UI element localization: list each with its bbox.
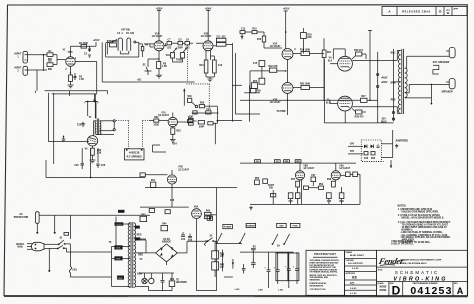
reverb recovery tube V8 bbox=[158, 111, 181, 145]
B+ test nodes bbox=[377, 49, 395, 124]
bias supply dashed box bbox=[348, 130, 408, 161]
vibrato tube V11A bbox=[288, 163, 315, 204]
border bottom emphasis bbox=[4, 296, 468, 298]
resistor R2 68K bbox=[47, 55, 66, 71]
reverb driver transformer T2 bbox=[89, 101, 101, 136]
input jack J2 bbox=[15, 66, 28, 75]
reverb recovery output bbox=[178, 116, 197, 125]
tremolo intensity components bbox=[249, 178, 360, 210]
tube V3 12AX7 bbox=[196, 9, 216, 51]
power amp drive line bbox=[240, 100, 337, 102]
tremolo network bbox=[140, 207, 189, 231]
enclosure corner bbox=[153, 145, 167, 152]
bridge rectifier bbox=[136, 238, 208, 265]
reverb return resistor bbox=[149, 117, 168, 127]
RCA jacks to tank bbox=[96, 120, 115, 135]
heater wiring pilot lamp bbox=[136, 273, 188, 291]
circuit breaker F1 bbox=[67, 247, 112, 278]
resistor R1 68K bbox=[47, 51, 57, 61]
V1 plate network bbox=[71, 40, 100, 57]
V3 output network bbox=[216, 36, 232, 121]
ground node reverb bbox=[62, 136, 66, 142]
vibrato tube V11B bbox=[327, 163, 351, 204]
notes text bbox=[391, 206, 451, 246]
power tube V5 6L6 bbox=[324, 49, 397, 123]
power switch S1 bbox=[44, 238, 70, 272]
cap C20 bbox=[77, 122, 85, 127]
V1 output coupling to fat switch bbox=[75, 40, 118, 94]
tremolo B+ bus bbox=[240, 160, 392, 168]
V2 cathode bbox=[143, 58, 168, 78]
AC plug bbox=[16, 242, 44, 251]
B+ feed line bbox=[368, 30, 372, 101]
B+ dropper node caps bbox=[84, 94, 99, 119]
wire jacks to grid resistors bbox=[28, 54, 48, 91]
node B+ main vertical bbox=[283, 8, 290, 49]
filter cap bank bbox=[197, 246, 300, 292]
revision box bbox=[382, 7, 467, 16]
V1 cathode network bbox=[68, 72, 85, 88]
power tube V6 6L6 bbox=[324, 96, 397, 123]
plug prong dots bbox=[35, 244, 37, 246]
preamp B+ rail bbox=[45, 80, 195, 94]
tube V2 12AX7 bbox=[144, 9, 164, 62]
reverb tank bbox=[125, 149, 145, 160]
bias dropping resistors bbox=[212, 241, 234, 277]
fuse and panel switch row bbox=[205, 216, 300, 248]
AC protector bbox=[14, 212, 150, 239]
tone stack caps bbox=[164, 40, 193, 82]
reverb ground bus bbox=[46, 148, 145, 178]
standby switch S2 bbox=[207, 235, 217, 242]
fat switch S1 bbox=[106, 29, 149, 58]
tremolo tube V9 bbox=[140, 167, 237, 207]
title block main bbox=[376, 250, 467, 297]
PI input cluster bbox=[240, 29, 282, 49]
drop wires from preamp to reverb bbox=[35, 91, 107, 164]
title block signature column bbox=[345, 250, 377, 295]
proprietary box bbox=[306, 250, 345, 295]
speaker jacks bbox=[405, 47, 455, 104]
input jack J1 bbox=[15, 51, 28, 63]
reverb send tube V7 bbox=[85, 136, 102, 163]
vibrato extra network bbox=[304, 172, 361, 204]
V3 cathode resistors bbox=[199, 51, 222, 82]
tube V1 7025 bbox=[63, 46, 77, 72]
tube V4A 12AX7 bbox=[270, 43, 297, 83]
tube V4B 12AX7 bbox=[270, 83, 293, 116]
output transformer T1 bbox=[391, 49, 408, 114]
power transformer T3 bbox=[109, 210, 146, 288]
tremolo osc tube V10 bbox=[181, 188, 217, 291]
shielded cables to tank bbox=[116, 121, 149, 149]
PI tail network bbox=[235, 53, 286, 114]
PI plate resistors bbox=[293, 28, 332, 101]
NFB resistor bbox=[337, 96, 378, 102]
dwell pot / mixer bbox=[183, 84, 261, 144]
